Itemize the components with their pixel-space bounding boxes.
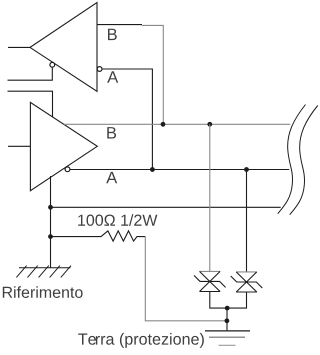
receiver enable bubble: [50, 62, 55, 67]
node: TVS rail junction: [225, 306, 230, 311]
bus line A: [70, 169, 289, 171]
wire receiver B drop (gray): [142, 25, 164, 124]
label A (receiver): [107, 71, 118, 82]
node: ground rail tap: [48, 205, 53, 210]
node: receiver-B joins bus B: [161, 122, 166, 127]
label 100ohm 1/2W: [78, 214, 157, 226]
label A (driver): [106, 172, 117, 183]
TVS diode D1 (bidirectional): [194, 271, 226, 291]
resistor R1: [51, 231, 146, 241]
node: earth junction: [225, 318, 230, 323]
bus line B (gray): [64, 123, 290, 125]
wire resistor to earth (gray): [145, 237, 226, 321]
wire earth drop: [226, 308, 228, 331]
cable break squiggle right: [290, 106, 318, 215]
label B (driver): [107, 127, 116, 138]
chassis ground (Riferimento): [16, 266, 71, 278]
wire receiver A input: [102, 69, 152, 170]
ground rail: [51, 206, 281, 208]
node: receiver-A joins bus A: [150, 167, 155, 172]
node: TVS D1 tap on bus B: [207, 122, 212, 127]
driver enable wire: [8, 91, 53, 117]
receiver enable wire: [8, 67, 53, 80]
wire driver ground lead: [50, 176, 52, 268]
earth ground (Terra): [205, 330, 250, 332]
receiver output stub: [8, 46, 30, 48]
driver output bubble A: [65, 167, 70, 172]
wire TVS D2 top lead: [246, 170, 248, 272]
wire TVS D1 top lead (gray): [209, 124, 211, 271]
TVS diode D2 (bidirectional): [231, 272, 263, 292]
driver U2 (right-pointing triangle): [30, 102, 97, 190]
driver input stub: [8, 145, 30, 147]
wire receiver B input (horizontal, black part): [97, 24, 142, 26]
node: resistor rail tap: [48, 234, 53, 239]
cable break squiggle left: [278, 105, 306, 214]
receiver input bubble A: [97, 67, 102, 72]
wire TVS bottom rail: [210, 292, 247, 309]
receiver U1 (left-pointing triangle): [30, 3, 97, 92]
node: TVS D2 tap on bus A: [244, 167, 249, 172]
label Riferimento: [3, 286, 83, 298]
label B (receiver): [108, 29, 117, 40]
label Terra (protezione): [78, 333, 204, 348]
